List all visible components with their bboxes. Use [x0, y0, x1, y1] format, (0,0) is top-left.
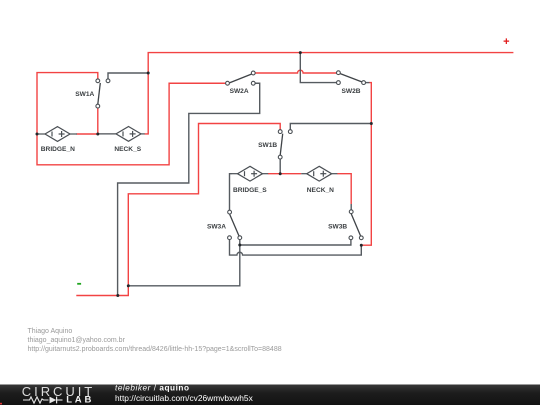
wire red top rail to +	[145, 53, 514, 134]
svg-text:BRIDGE_N: BRIDGE_N	[41, 146, 75, 153]
footer bar	[0, 385, 540, 405]
wire red SW2B common down to SW3B junction	[362, 83, 371, 246]
node - label	[77, 283, 81, 285]
svg-text:telebiker / aquino: telebiker / aquino	[115, 384, 190, 393]
wire gray BRIDGE_S left to SW3A top	[230, 174, 233, 211]
logo diode	[50, 397, 57, 404]
wire red BRIDGE_S to NECK_N	[268, 173, 301, 175]
junction SW3A throw2	[238, 244, 241, 247]
junction BRIDGE_N right / SW1A common	[96, 133, 99, 136]
wire red loop SW1A to SW2A via left side	[37, 73, 225, 165]
svg-text:http://circuitlab.com/cv26wmvb: http://circuitlab.com/cv26wmvbxwh5x	[115, 393, 254, 403]
wire gray SW1A throw2 to top rail	[108, 73, 148, 79]
source NECK_N	[301, 166, 337, 181]
switch SW1B	[278, 130, 292, 159]
junction SW1B common / pickup row	[279, 172, 282, 175]
svg-text:LAB: LAB	[66, 395, 94, 405]
svg-text:SW2A: SW2A	[230, 88, 249, 95]
switch SW1A	[96, 79, 110, 108]
wire red NECK_N right to SW3B top	[337, 174, 351, 204]
wire gray SW3B top stub	[350, 204, 352, 210]
wire gray SW2A common path to output minus	[118, 83, 260, 295]
wire gray SW1B throw2 to SW2B common net	[290, 124, 371, 130]
wire gray SW3A junction to SW3B throw1	[240, 240, 351, 245]
svg-text:BRIDGE_S: BRIDGE_S	[233, 187, 267, 194]
wire gray SW2B common stub	[366, 82, 370, 84]
corner red mark	[0, 403, 2, 405]
source NECK_S	[98, 127, 145, 142]
junction output minus	[116, 294, 119, 297]
switch SW3B	[349, 210, 363, 240]
logo resistor	[23, 397, 49, 403]
wire red SW1B throw to output minus	[76, 124, 280, 296]
svg-text:+: +	[503, 36, 509, 48]
svg-text:NECK_S: NECK_S	[114, 146, 141, 153]
svg-text:SW1A: SW1A	[75, 91, 94, 98]
source BRIDGE_N	[37, 127, 77, 142]
svg-text:SW3B: SW3B	[328, 223, 347, 230]
switch SW2B	[337, 71, 366, 85]
junction SW1A throw2 / rail drop	[147, 72, 150, 75]
junction top rail	[299, 51, 302, 54]
wire gray SW3A throw1 lower cross wire with hop to SW3B junction	[230, 240, 362, 256]
wire red BRIDGE_N right to junction	[77, 133, 98, 135]
svg-text:SW3A: SW3A	[207, 223, 226, 230]
wire red SW2A to SW2B with hop	[255, 70, 336, 73]
source BRIDGE_S	[232, 166, 268, 181]
wire gray top junction down to SW2B throw2	[300, 53, 336, 83]
wire gray SW1B common down to pickup row	[279, 159, 281, 174]
svg-text:Thiago Aquino: Thiago Aquino	[28, 328, 73, 335]
wire red SW1A common down	[97, 108, 99, 134]
svg-text:NECK_N: NECK_N	[307, 187, 334, 194]
wire gray SW3A throw2 down and left to output	[128, 240, 240, 286]
svg-text:SW1B: SW1B	[258, 142, 277, 149]
switch SW2A	[226, 71, 256, 85]
junction output branch	[127, 284, 130, 287]
svg-text:SW2B: SW2B	[341, 88, 360, 95]
switch SW3A	[228, 210, 242, 239]
junction BRIDGE_N left	[36, 133, 39, 136]
svg-text:http://guitarnuts2.proboards.c: http://guitarnuts2.proboards.com/thread/…	[28, 346, 282, 353]
junction SW1B throw2 net	[370, 122, 373, 125]
svg-text:thiago_aquino1@yahoo.com.br: thiago_aquino1@yahoo.com.br	[28, 337, 126, 344]
junction SW3B throw2	[360, 244, 363, 247]
